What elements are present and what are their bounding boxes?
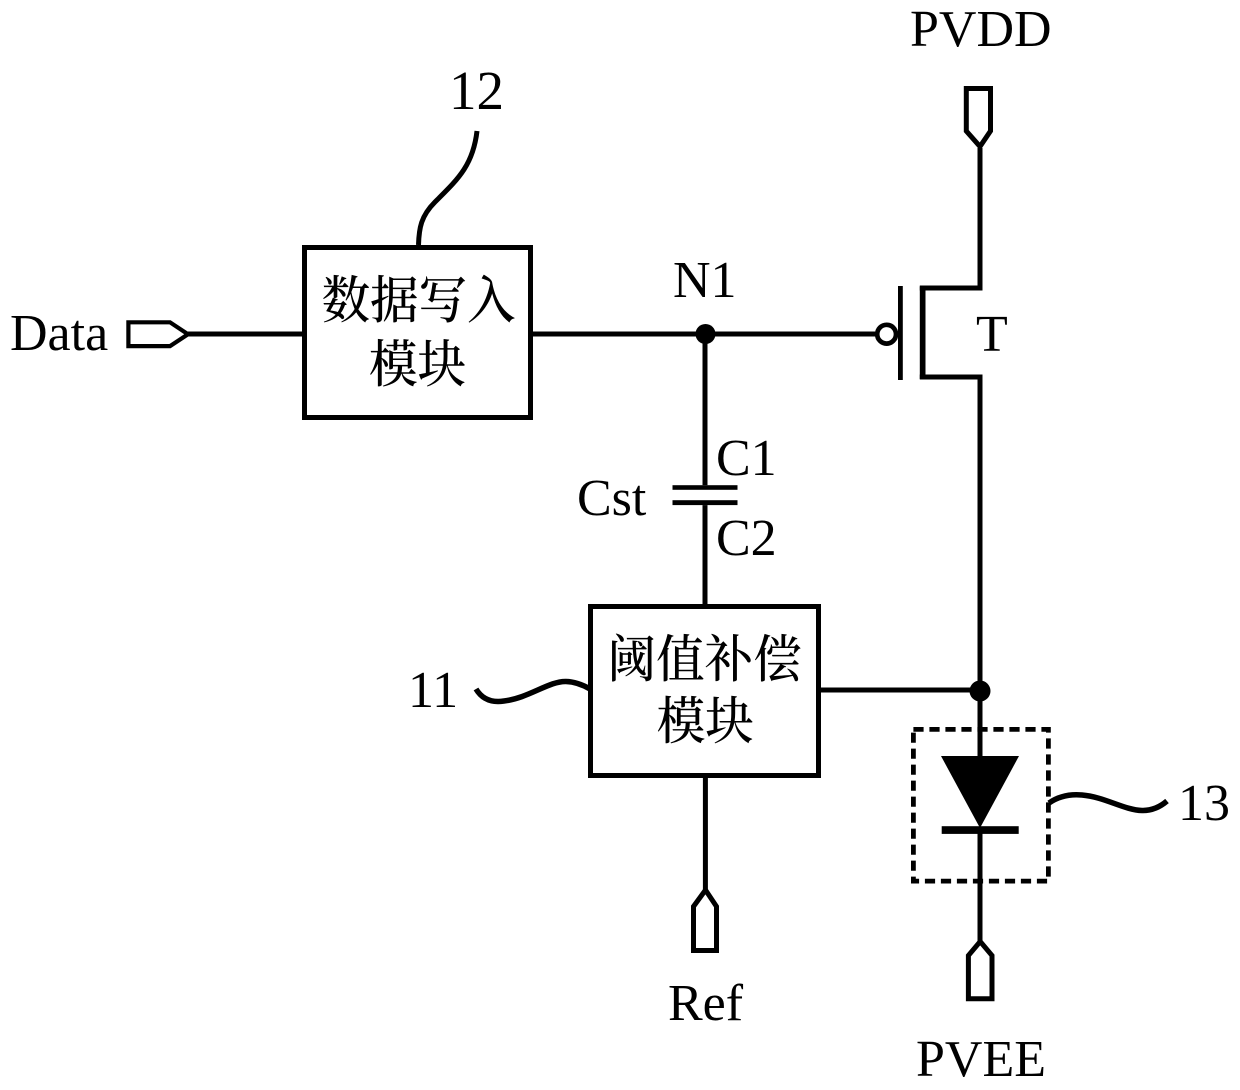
svg-text:11: 11 xyxy=(408,662,458,719)
wire N1 to capacitor xyxy=(703,334,708,485)
transistor T source stub xyxy=(920,375,983,380)
node junction dot xyxy=(970,681,991,702)
threshold module text line1 阈值补偿 xyxy=(612,634,654,682)
threshold module text line2 模块 xyxy=(658,696,705,744)
svg-text:Ref: Ref xyxy=(668,975,744,1032)
wire threshold module to Ref terminal xyxy=(703,775,708,890)
leader line 11 xyxy=(476,681,590,701)
leader line 12 xyxy=(419,131,478,245)
transistor T drain stub xyxy=(920,286,983,291)
wire junction node to diode anode xyxy=(978,691,983,761)
OLED dashed box 13 xyxy=(913,729,1048,881)
terminal PVEE xyxy=(968,942,992,999)
threshold compensation module 11 box xyxy=(591,607,819,776)
wire threshold module to junction node xyxy=(818,688,980,693)
svg-text:C1: C1 xyxy=(716,430,777,487)
terminal Ref xyxy=(694,890,717,951)
capacitor Cst plate C2 xyxy=(673,500,738,505)
node N1 dot xyxy=(696,324,716,344)
transistor T gate bar xyxy=(898,286,903,380)
transistor T channel bar xyxy=(920,286,926,379)
leader line 13 xyxy=(1049,795,1167,811)
svg-text:Data: Data xyxy=(10,305,108,362)
svg-text:N1: N1 xyxy=(673,252,737,309)
svg-text:PVEE: PVEE xyxy=(916,1031,1046,1088)
capacitor Cst plate C1 xyxy=(673,485,738,490)
OLED diode cathode bar xyxy=(942,826,1019,834)
wire capacitor to threshold module xyxy=(703,505,708,606)
terminal PVDD xyxy=(966,89,990,147)
wire transistor source to junction node xyxy=(978,377,983,691)
wire Data terminal to data-write module xyxy=(188,332,304,337)
data write module text line2 模块 xyxy=(370,339,417,387)
svg-text:13: 13 xyxy=(1178,775,1230,832)
OLED diode anode triangle xyxy=(941,756,1019,828)
svg-text:PVDD: PVDD xyxy=(910,1,1052,58)
svg-text:C2: C2 xyxy=(716,510,777,567)
transistor T gate circle xyxy=(877,325,896,344)
wire diode cathode to PVEE terminal xyxy=(978,830,983,942)
svg-text:Cst: Cst xyxy=(577,470,647,527)
data write module text line1 数据写入 xyxy=(323,275,369,323)
data write module 12 box xyxy=(305,248,531,418)
svg-text:12: 12 xyxy=(449,60,504,121)
svg-text:T: T xyxy=(976,306,1008,363)
terminal Data xyxy=(128,322,188,346)
wire PVDD to transistor drain xyxy=(978,148,983,288)
wire module 12 to transistor gate xyxy=(530,332,875,337)
